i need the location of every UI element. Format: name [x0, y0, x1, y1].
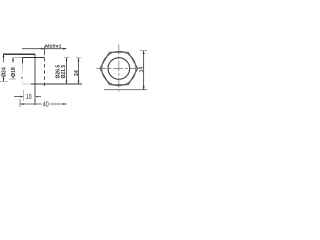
horizontal centerline — [97, 68, 142, 70]
body left edge — [22, 57, 24, 63]
svg-text:Ø18: Ø18 — [11, 67, 17, 77]
arrow down dim D18 — [12, 76, 14, 79]
extension edge x35 — [34, 54, 36, 105]
dim line 24 right of side view — [78, 58, 80, 84]
leader line of 10 dim — [14, 96, 21, 98]
dimension line 40 left part — [20, 103, 42, 105]
small mark left lower corner — [21, 77, 23, 78]
hidden thread line dashed — [44, 47, 46, 52]
arrow up right dim — [143, 51, 145, 54]
arrow down dim D26 — [66, 81, 68, 84]
extension line left of 10 dim — [23, 90, 25, 101]
body top edge — [13, 57, 23, 59]
vertical centerline — [118, 45, 120, 92]
body bottom edge — [23, 83, 32, 85]
shaft right of arrow — [39, 96, 41, 98]
top dim arrow at 66.5 — [63, 48, 66, 50]
dimension line D18 vertical — [12, 58, 14, 80]
svg-text:24: 24 — [74, 70, 80, 76]
outer circle washer face — [102, 51, 136, 85]
dimension line D24 vertical — [3, 54, 5, 82]
arrow down dim D24 — [3, 78, 5, 81]
top tick dim 24 — [76, 57, 82, 59]
arrow left toward 35 — [35, 96, 38, 98]
top extension tick right dim — [140, 50, 148, 52]
extension line left of 40 dim — [19, 99, 21, 107]
halo D18 — [10, 63, 15, 78]
right dimension line 34 — [143, 51, 145, 90]
arrow right end 40 — [63, 103, 66, 105]
top dim arrow at 44.5 — [41, 48, 44, 50]
arrow up dim 24 — [78, 58, 80, 61]
svg-text:10: 10 — [26, 92, 32, 101]
halo D24 — [1, 63, 7, 78]
dimension line 40 right part — [50, 103, 67, 105]
arrow left end 40 — [20, 103, 23, 105]
arrow down dim 24 — [78, 81, 80, 84]
bottom extension line of hex view — [104, 89, 147, 91]
arrow up dim D26 — [66, 58, 68, 61]
arrow down right dim — [143, 86, 145, 89]
arrow right toward 23.5 — [20, 96, 23, 98]
svg-text:Ø24: Ø24 — [2, 67, 8, 77]
svg-text:34: 34 — [139, 67, 145, 73]
extension line top of side view — [3, 53, 35, 55]
top thread dimension line — [22, 48, 67, 50]
top tick dim D26 — [64, 57, 70, 59]
svg-text:M20x1: M20x1 — [45, 43, 62, 49]
svg-text:Ø21.5: Ø21.5 — [61, 65, 67, 79]
dim line D26 middle vertical — [66, 58, 68, 85]
hexagon front view — [100, 52, 138, 85]
svg-text:40: 40 — [43, 100, 49, 109]
extension line bottom of dim D18 — [9, 78, 16, 80]
extension line bottom of dim D24 — [0, 81, 8, 83]
arrow up dim D24 — [3, 54, 5, 57]
inner bore circle — [108, 58, 130, 80]
arrow up dim D18 — [12, 58, 14, 61]
